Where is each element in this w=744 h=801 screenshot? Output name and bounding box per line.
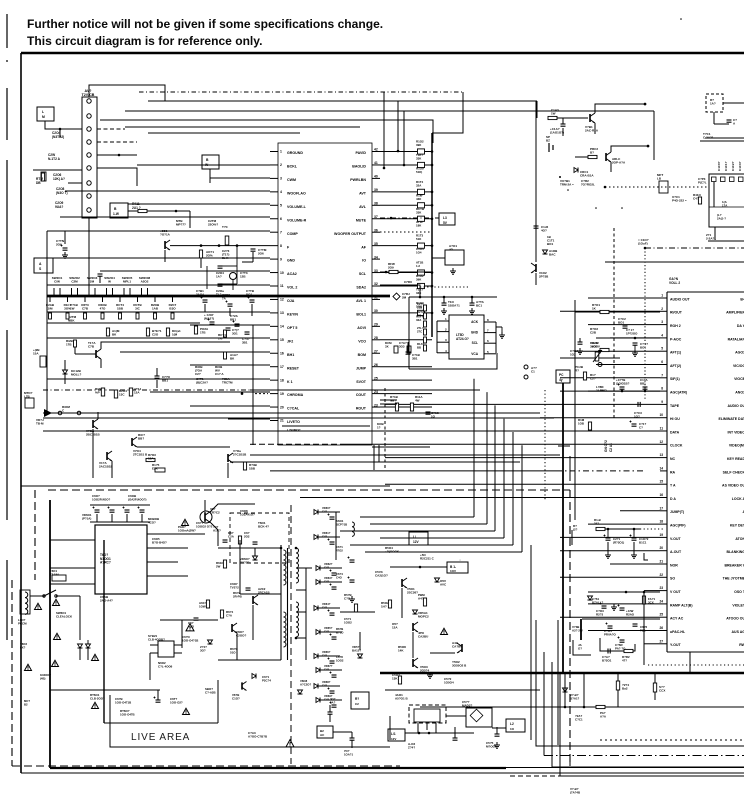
svg-text:17: 17 xyxy=(280,365,284,369)
svg-text:BZALL?: BZALL? xyxy=(592,601,603,605)
svg-text:4W: 4W xyxy=(415,399,420,403)
svg-text:1OO2: 1OO2 xyxy=(344,621,352,625)
svg-text:SO: SO xyxy=(670,577,675,581)
svg-text:C7B: C7B xyxy=(82,307,89,311)
svg-text:43K: 43K xyxy=(416,197,422,201)
svg-text:VCO: VCO xyxy=(358,339,366,343)
dashed left part of net 444 xyxy=(250,443,340,445)
wire U101 pin13 xyxy=(47,311,270,313)
svg-text:13K: 13K xyxy=(392,677,398,681)
svg-text:RESET: RESET xyxy=(287,366,300,370)
svg-text:AT24.O?: AT24.O? xyxy=(456,337,469,341)
zener VD5O2 xyxy=(413,610,418,614)
svg-text:C4?: C4? xyxy=(324,697,329,701)
svg-text:3O3: 3O3 xyxy=(399,345,405,349)
svg-text:3O?: 3O? xyxy=(200,649,206,653)
svg-text:AF: AF xyxy=(361,245,367,249)
svg-text:3B1: 3B1 xyxy=(242,341,248,345)
svg-text:28: 28 xyxy=(374,336,378,340)
transistor V602b primary xyxy=(252,596,254,604)
wire U101 pin19 xyxy=(150,391,270,393)
svg-text:47O: 47O xyxy=(100,307,106,311)
svg-text:41: 41 xyxy=(374,161,378,165)
svg-text:1OA?1: 1OA?1 xyxy=(344,752,353,756)
svg-text:2TC1B1 B: 2TC1B1 B xyxy=(133,453,148,457)
svg-text:18: 18 xyxy=(659,520,663,524)
svg-text:TO1: TO1 xyxy=(640,629,646,633)
svg-text:C2 A1: C2 A1 xyxy=(609,443,613,452)
vertical dashed x614 xyxy=(613,228,615,420)
transistor V502 xyxy=(412,623,414,631)
warn bottom2 xyxy=(186,624,194,631)
bridge module xyxy=(466,708,492,727)
box R7 xyxy=(351,692,369,709)
svg-text:16: 16 xyxy=(280,351,284,355)
wire top net 2 xyxy=(148,100,537,102)
wire pin4 row xyxy=(615,337,660,339)
svg-text:1AB: 1AB xyxy=(152,307,159,311)
resistor R218c xyxy=(106,328,109,336)
vertical dotted x645 xyxy=(644,248,646,400)
svg-text:1A?: 1A? xyxy=(710,102,716,106)
wire caps bus xyxy=(90,504,150,506)
svg-text:VIDEO(M): VIDEO(M) xyxy=(729,444,744,448)
cluster res bottom xyxy=(624,649,633,652)
live area dashed bottom xyxy=(12,765,400,767)
svg-text:LIVE AREA: LIVE AREA xyxy=(131,732,190,743)
cluster ecap5 xyxy=(620,639,625,641)
resistor RFW xyxy=(389,270,398,273)
svg-text:14: 14 xyxy=(659,466,663,470)
ecap cluster C224 xyxy=(210,321,215,323)
wire pin6 stub xyxy=(68,182,82,184)
wire net AGC xyxy=(560,390,660,392)
svg-text:1H?: 1H? xyxy=(381,605,387,609)
live area dashed top xyxy=(48,489,570,491)
res bm xyxy=(354,604,357,612)
wire sec bottom xyxy=(333,731,352,733)
svg-text:33K: 33K xyxy=(416,291,422,295)
svg-text:2A?: 2A? xyxy=(404,284,410,288)
wire V201 collector xyxy=(101,342,230,349)
wire psu bottom link xyxy=(104,722,218,724)
live area solid left bar xyxy=(49,500,51,768)
svg-text:1: 1 xyxy=(280,150,282,154)
wire V207 emitter xyxy=(227,463,229,478)
svg-text:C1F0?: C1F0? xyxy=(717,161,721,171)
svg-text:CLB-2OO?: CLB-2OO? xyxy=(90,697,105,701)
wire V202 base xyxy=(189,211,191,228)
isolation barrier dashed xyxy=(290,505,292,764)
frame left border xyxy=(20,53,22,773)
wire V1A2 collector xyxy=(611,146,648,152)
svg-text:BOL1: BOL1 xyxy=(356,313,366,317)
svg-text:8: 8 xyxy=(661,387,663,391)
svg-text:MOLL?: MOLL? xyxy=(71,373,81,377)
box L/M input jack xyxy=(37,107,54,121)
resistor R216 xyxy=(74,340,77,347)
transistor V102 xyxy=(535,264,537,272)
transformer T601 right winding upper xyxy=(296,548,299,583)
svg-text:6: 6 xyxy=(661,360,663,364)
inner boundary corner live area xyxy=(110,695,390,747)
live area thick bottom xyxy=(50,767,506,769)
svg-text:A?A: A?A xyxy=(600,715,607,719)
svg-text:C?: C? xyxy=(639,426,643,430)
svg-text:AFT(2): AFT(2) xyxy=(670,364,681,368)
capacitor C2Oa xyxy=(218,283,223,285)
wire C2TM down xyxy=(252,252,254,262)
svg-text:C/W: C/W xyxy=(54,280,60,284)
mid live area resistor cluster xyxy=(206,600,209,608)
svg-text:2M: 2M xyxy=(402,296,407,300)
svg-text:2P?3B: 2P?3B xyxy=(539,275,549,279)
wire rm1 xyxy=(575,311,600,313)
svg-text:D A: D A xyxy=(670,497,676,501)
feedback diode xyxy=(252,674,256,679)
capacitor C1J2 xyxy=(534,225,539,227)
svg-text:SDA2: SDA2 xyxy=(356,286,366,290)
svg-text:R?: R? xyxy=(355,697,359,701)
wire under tuner xyxy=(708,240,744,242)
svg-text:A5?O1 B: A5?O1 B xyxy=(395,697,409,701)
svg-text:C1F1?: C1F1? xyxy=(724,161,728,171)
wire connector to right xyxy=(97,168,137,186)
wire U101 pin3 to U2 box xyxy=(210,178,270,183)
tuner box A1 xyxy=(709,174,744,227)
svg-text:Further notice will not be giv: Further notice will not be given if some… xyxy=(27,17,383,31)
cluster ecap2 xyxy=(620,607,625,609)
svg-text:AVT: AVT xyxy=(359,191,367,195)
svg-text:ACY AC: ACY AC xyxy=(670,617,684,621)
EEPROM right rail xyxy=(495,322,497,353)
dot chroma row xyxy=(241,392,244,395)
svg-text:CCX: CCX xyxy=(659,689,665,693)
svg-text:C1: C1 xyxy=(531,370,535,374)
transformer T601 left winding upper xyxy=(284,550,287,585)
svg-text:25: 25 xyxy=(374,376,378,380)
wire pin8 right xyxy=(97,154,137,156)
svg-text:C4?: C4? xyxy=(324,565,329,569)
wire Rx down xyxy=(713,112,715,124)
wire RFW right xyxy=(380,271,389,273)
svg-text:B?1O: B?1O xyxy=(336,630,344,634)
svg-text:2: 2 xyxy=(661,307,663,311)
wire U101 pin6 stub xyxy=(60,216,270,218)
svg-text:2W: 2W xyxy=(216,565,221,569)
svg-text:C7B: C7B xyxy=(88,345,95,349)
capacitor pin9 row xyxy=(637,402,639,407)
svg-text:3: 3 xyxy=(661,320,663,324)
svg-text:Y-OUT: Y-OUT xyxy=(670,643,682,647)
cluster C12A caps xyxy=(606,537,611,539)
svg-text:1/M: 1/M xyxy=(47,307,53,311)
svg-text:PRVA?O: PRVA?O xyxy=(604,633,617,637)
svg-text:A2? 2W: A2? 2W xyxy=(572,629,583,633)
svg-text:12: 12 xyxy=(659,440,663,444)
svg-text:C?L-4OO6: C?L-4OO6 xyxy=(158,665,173,669)
svg-text:10: 10 xyxy=(659,413,663,417)
svg-text:A1C?: A1C? xyxy=(213,529,221,533)
svg-text:1OO-O471B: 1OO-O471B xyxy=(115,701,131,705)
svg-text:9UA?: 9UA? xyxy=(55,205,63,209)
svg-text:uPAC-HL: uPAC-HL xyxy=(670,630,686,634)
wire under U101 long xyxy=(250,454,560,456)
svg-text:L3: L3 xyxy=(443,216,447,220)
resistor R2TB xyxy=(199,250,202,258)
svg-text:12K) A?: 12K) A? xyxy=(53,177,65,181)
cap rm xyxy=(578,341,583,343)
wire V504 net xyxy=(430,652,455,654)
cluster cap4 xyxy=(633,623,638,625)
svg-text:KEYIN: KEYIN xyxy=(287,313,298,317)
wire under U101 long2 xyxy=(230,461,520,463)
ecap cluster C225 xyxy=(235,323,240,325)
svg-text:AGO1: AGO1 xyxy=(735,351,744,355)
transistor V206 xyxy=(131,438,133,446)
wire U101 pin15 xyxy=(47,337,270,339)
thin line y768 right xyxy=(506,767,744,769)
wire V201 base xyxy=(75,353,96,355)
svg-text:1O5O4: 1O5O4 xyxy=(444,681,454,685)
svg-text:ATON: ATON xyxy=(735,537,744,541)
svg-text:IO: IO xyxy=(362,259,366,263)
svg-text:20: 20 xyxy=(280,405,284,409)
below thick line components xyxy=(564,673,566,707)
EEPROM bottom wire xyxy=(409,353,497,369)
svg-text:16: 16 xyxy=(659,493,663,497)
resistor R11A under U101 xyxy=(410,403,413,411)
svg-text:DATA: DATA xyxy=(670,430,680,434)
cluster gnd xyxy=(613,604,615,607)
svg-text:AUS AG: AUS AG xyxy=(732,630,744,634)
svg-text:C4?: C4? xyxy=(322,534,327,538)
svg-text:2O%: 2O% xyxy=(206,254,213,258)
svg-text:AVL 1: AVL 1 xyxy=(356,299,366,303)
resistor R219 xyxy=(194,326,197,334)
svg-text:OSO T: OSO T xyxy=(734,590,744,594)
wire psu right4 xyxy=(147,575,188,577)
svg-text:A3O: A3O xyxy=(188,625,195,629)
svg-text:BAOLID: BAOLID xyxy=(352,165,366,169)
IC U301 body xyxy=(667,292,744,652)
transistor V602 xyxy=(204,512,206,522)
cluster res FA2 xyxy=(642,596,645,604)
transformer T601 left winding lower xyxy=(284,612,287,647)
svg-text:2AC-R1A: 2AC-R1A xyxy=(585,129,599,133)
ground v503 xyxy=(429,672,431,675)
thin vertical x575 xyxy=(574,300,576,520)
svg-text:DA Y: DA Y xyxy=(737,324,744,328)
svg-text:8: 8 xyxy=(280,244,282,248)
bridge diode VD602 xyxy=(78,644,83,648)
svg-text:C2A: C2A xyxy=(228,535,235,539)
wire U101 pin7 xyxy=(47,230,270,232)
svg-text:17A: 17A xyxy=(722,204,728,208)
net from top to U301 xyxy=(653,111,655,160)
svg-text:2AO4: 2AO4 xyxy=(196,293,204,297)
svg-text:CA2BU: CA2BU xyxy=(418,635,428,639)
wire r6a r6b xyxy=(617,673,619,681)
svg-text:CLEALOCK: CLEALOCK xyxy=(56,615,73,619)
wire mid net solid right xyxy=(250,389,480,391)
wire bm2 xyxy=(359,632,361,650)
svg-text:P-AOC: P-AOC xyxy=(670,337,682,341)
dashdot row pin14 xyxy=(556,470,643,472)
svg-text:2?C1B1B: 2?C1B1B xyxy=(233,453,247,457)
capacitor C2O4b xyxy=(218,265,223,267)
wire psu left3 xyxy=(50,583,95,585)
svg-text:ANO1: ANO1 xyxy=(735,391,744,395)
junction dots upper right xyxy=(644,103,647,106)
svg-text:1O: 1O xyxy=(431,415,436,419)
wire to B110V box xyxy=(390,566,447,568)
svg-text:ROUT: ROUT xyxy=(356,407,367,411)
fuse F601 xyxy=(52,575,66,581)
secondary rows xyxy=(314,510,318,515)
svg-text:OJA: OJA xyxy=(287,299,295,303)
warn ac3 xyxy=(54,633,61,639)
svg-text:47?: 47? xyxy=(622,659,627,663)
wire sda long xyxy=(380,285,420,297)
resistor R5O2 xyxy=(388,600,391,608)
wire rail right of U101 xyxy=(431,133,433,337)
wire net above live area xyxy=(21,485,390,487)
svg-text:27C: 27C xyxy=(417,329,422,333)
resistor T7C xyxy=(225,236,229,245)
wire eeprom net down xyxy=(408,297,410,369)
svg-text:3X: 3X xyxy=(385,345,389,349)
svg-text:2AC1B1B: 2AC1B1B xyxy=(99,465,114,469)
svg-text:3O55O2 B: 3O55O2 B xyxy=(452,664,467,668)
vertical primary return x104 xyxy=(103,540,105,723)
transistor V503 xyxy=(412,659,414,667)
wire xfmr left top xyxy=(270,547,281,549)
wire V204 emitter xyxy=(92,429,94,440)
svg-text:29: 29 xyxy=(374,323,378,327)
wire Rx to edge xyxy=(723,102,744,104)
svg-text:PCCM: PCCM xyxy=(18,622,27,626)
EEPROM right pins xyxy=(484,321,496,323)
svg-text:TRM-2A =: TRM-2A = xyxy=(560,183,574,187)
capacitor C231 xyxy=(406,351,411,353)
wire rm2 xyxy=(596,337,660,339)
svg-text:35: 35 xyxy=(374,242,378,246)
secondary cap row2 xyxy=(350,559,355,561)
EEPROM U202 body xyxy=(449,315,484,359)
wire top right h line xyxy=(705,137,744,139)
svg-text:51O: 51O xyxy=(230,651,236,655)
svg-text:1-W: 1-W xyxy=(113,212,119,216)
tuner pin squares xyxy=(712,177,717,182)
svg-text:AVC: AVC xyxy=(440,583,447,587)
svg-text:RATALIAN: RATALIAN xyxy=(728,337,744,341)
opto leads xyxy=(150,644,158,646)
svg-text:3/C: 3/C xyxy=(135,307,141,311)
svg-text:TV2?2: TV2?2 xyxy=(230,586,239,590)
svg-text:BB1: BB1 xyxy=(230,318,236,322)
diode VD203 arrow xyxy=(44,409,52,417)
svg-text:51K): 51K) xyxy=(416,170,422,174)
dashed drop sda xyxy=(384,388,386,470)
dashdot bus line xyxy=(543,652,545,756)
svg-text:26: 26 xyxy=(659,626,663,630)
box bottom right of live xyxy=(317,726,333,738)
svg-text:3O1: 3O1 xyxy=(232,332,238,336)
svg-text:BOM: BOM xyxy=(358,353,366,357)
svg-text:AGC(PIF): AGC(PIF) xyxy=(670,524,686,528)
staircase corner drops to secondary xyxy=(473,379,475,517)
svg-text:4: 4 xyxy=(280,190,282,194)
AC inlet degauss coil xyxy=(25,592,28,614)
resistor small y707 xyxy=(596,705,605,708)
ground EEPROM right xyxy=(501,332,503,335)
svg-text:3kOBV: 3kOBV xyxy=(590,345,600,349)
svg-text:L: L xyxy=(42,110,44,114)
resistor stack left of EEPROM xyxy=(424,305,427,311)
svg-text:17B: 17B xyxy=(200,331,206,335)
svg-text:34: 34 xyxy=(374,255,378,259)
transistor V504 xyxy=(461,644,463,652)
wire under U101 bar xyxy=(282,425,370,427)
resistor PRC2 xyxy=(588,155,597,158)
svg-text:LX?: LX? xyxy=(20,645,26,649)
warn live bottom xyxy=(286,740,294,747)
capacitor C1A4 xyxy=(561,123,566,125)
wire vert drop a xyxy=(383,92,385,168)
svg-text:17B: 17B xyxy=(66,343,72,347)
primary cap C601 xyxy=(95,509,100,511)
switch SW601 xyxy=(44,590,56,596)
svg-text:(R?2O1): (R?2O1) xyxy=(613,541,624,545)
capacitor C2TM xyxy=(251,248,256,250)
svg-text:G?: G? xyxy=(578,647,582,651)
capacitor C232 xyxy=(155,375,160,377)
resistor row below bus xyxy=(49,296,51,302)
dots xfmr xyxy=(280,547,283,550)
svg-text:PWRLBN: PWRLBN xyxy=(350,178,366,182)
svg-text:5: 5 xyxy=(661,347,663,351)
svg-text:C2OO?: C2OO? xyxy=(236,634,247,638)
wire V201 emitter xyxy=(100,359,102,368)
inductor secondary xyxy=(352,522,354,536)
diode below xyxy=(563,688,568,692)
svg-text:15: 15 xyxy=(280,338,284,342)
svg-text:PAVID: PAVID xyxy=(356,151,367,155)
svg-text:2A?: 2A? xyxy=(330,700,336,704)
svg-text:T A: T A xyxy=(670,484,676,488)
capacitor C1R1 xyxy=(727,119,732,121)
capacitor C516 xyxy=(453,737,458,739)
svg-text:1P?2OO: 1P?2OO xyxy=(626,332,638,336)
svg-text:(1O/O1B?: (1O/O1B? xyxy=(616,382,630,386)
svg-text:2SC26?: 2SC26? xyxy=(407,591,418,595)
warn ac6 xyxy=(92,654,99,660)
adjustable resistor R1JA xyxy=(595,352,599,361)
svg-text:SELF CHECK: SELF CHECK xyxy=(723,470,744,474)
wire mute dashdot to L3 xyxy=(380,217,439,219)
U101 bottom leads xyxy=(373,445,375,470)
svg-text:1(M: 1(M xyxy=(172,333,178,337)
ground AFT xyxy=(452,268,454,271)
svg-text:13: 13 xyxy=(659,453,663,457)
svg-text:C4?: C4? xyxy=(324,579,329,583)
wire reg bottom net xyxy=(389,716,391,740)
svg-text:ELIMINATE DAT: ELIMINATE DAT xyxy=(718,417,744,421)
wire U101 pin11 xyxy=(47,284,270,286)
connector circles mid xyxy=(524,365,528,369)
wire cluster drop xyxy=(236,246,238,284)
